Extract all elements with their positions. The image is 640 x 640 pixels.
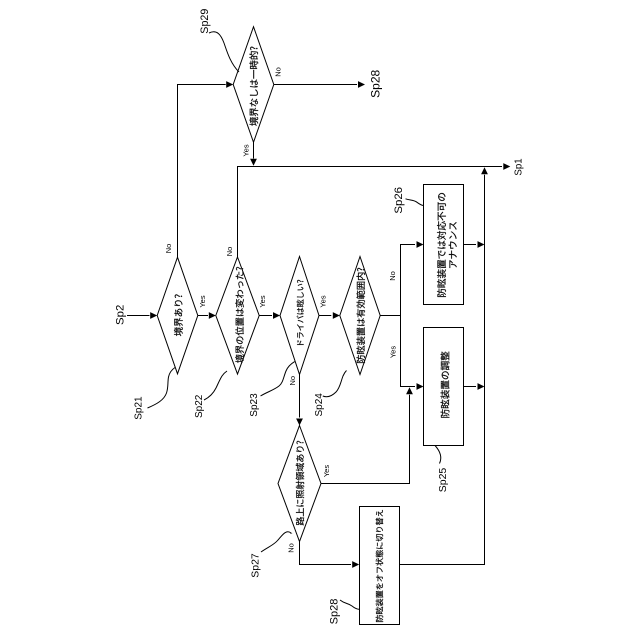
wire Sp27 Yes up into Sp25 input xyxy=(321,395,410,484)
process Sp26 防眩装置では対応不可のアナウンス xyxy=(424,185,464,305)
svg-text:Sp28: Sp28 xyxy=(368,69,382,97)
svg-text:Sp29: Sp29 xyxy=(199,9,211,34)
decision Sp22 境界の位置は変わった? xyxy=(216,257,259,374)
wire Sp22 Yes to Sp23 xyxy=(259,315,272,317)
svg-text:Sp26: Sp26 xyxy=(393,187,405,214)
svg-text:No: No xyxy=(287,543,296,553)
svg-text:No: No xyxy=(288,376,297,386)
process Sp25 防眩装置の調整 xyxy=(424,328,464,446)
svg-text:No: No xyxy=(164,244,173,254)
wire Sp25 out to collector xyxy=(464,386,477,388)
wire Sp24 No to Sp26 xyxy=(401,245,416,316)
wire Sp24 branch stem xyxy=(380,315,400,317)
process Sp28 防眩装置をオフ状態に切り替え xyxy=(360,507,400,625)
decision Sp24 防眩装置は有効範囲内? xyxy=(340,257,380,375)
decision Sp23 ドライバは眩しい? xyxy=(280,257,319,375)
svg-text:Yes: Yes xyxy=(322,465,331,477)
svg-text:Yes: Yes xyxy=(242,144,251,156)
svg-text:Yes: Yes xyxy=(198,295,207,307)
wire Sp29 Yes down to return line xyxy=(253,142,255,158)
svg-text:No: No xyxy=(388,271,397,281)
svg-text:Sp28: Sp28 xyxy=(328,599,340,625)
svg-text:Yes: Yes xyxy=(319,295,328,307)
wire Sp21 Yes to Sp22 xyxy=(198,315,208,317)
decision Sp27 路上に照射領域あり? xyxy=(278,426,321,542)
svg-text:No: No xyxy=(274,67,283,77)
svg-text:Sp25: Sp25 xyxy=(437,468,449,493)
decision Sp29 境界なしは一時的? xyxy=(233,27,274,143)
wire Sp2 entry arrow xyxy=(127,315,150,317)
wire Sp22 No up, return line to Sp1 xyxy=(238,167,503,258)
svg-text:Sp2: Sp2 xyxy=(115,305,127,325)
wire Sp24 Yes to Sp25 xyxy=(401,316,416,387)
wire Sp28 out, collector up to return line xyxy=(400,175,485,565)
svg-text:Sp27: Sp27 xyxy=(250,553,262,578)
wire Sp23 No down to Sp27 xyxy=(299,375,301,418)
wire Sp26 out to collector xyxy=(464,244,477,246)
wire Sp29 No to Sp28 label xyxy=(274,84,357,86)
wire Sp21 No up and right to Sp29 xyxy=(178,85,226,258)
decision Sp21 境界あり? xyxy=(157,257,198,374)
svg-text:Sp21: Sp21 xyxy=(133,396,144,420)
svg-text:Yes: Yes xyxy=(389,346,398,358)
svg-text:Sp22: Sp22 xyxy=(194,394,205,418)
wire Sp23 Yes to Sp24 xyxy=(319,315,331,317)
wire Sp27 No to Sp28 xyxy=(300,542,352,565)
svg-text:Yes: Yes xyxy=(258,295,267,307)
svg-text:Sp23: Sp23 xyxy=(249,393,260,417)
svg-text:No: No xyxy=(225,247,234,257)
svg-text:Sp1: Sp1 xyxy=(513,158,524,175)
